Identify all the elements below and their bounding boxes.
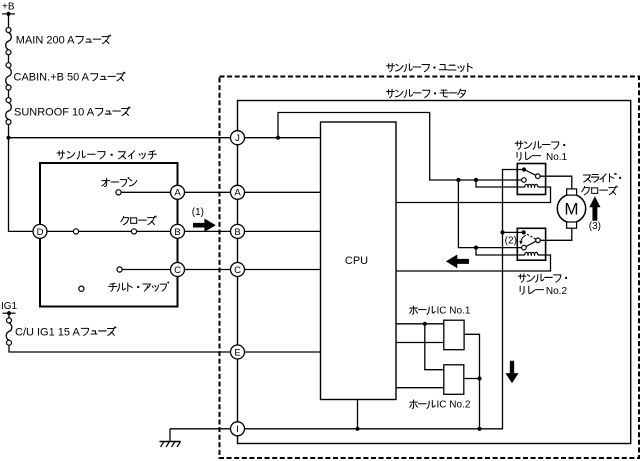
hall IC No.1 box bbox=[444, 320, 464, 350]
wire I to ground bbox=[170, 428, 231, 430]
wire CPU to relay2 coil return bbox=[396, 255, 551, 271]
pin I connector circle (unit) bbox=[231, 422, 245, 436]
wire open contact to pin A bbox=[121, 191, 170, 193]
wire D to first contact bbox=[47, 230, 73, 232]
switch contact circle on C line bbox=[117, 267, 122, 272]
fuse CABIN.+B 50A symbol bbox=[6, 63, 12, 90]
junction CPU bottom on ground bus bbox=[355, 427, 359, 431]
svg-text:IG1: IG1 bbox=[1, 301, 18, 312]
pin A connector circle (unit) bbox=[231, 185, 245, 199]
svg-text:(3): (3) bbox=[589, 221, 601, 232]
svg-text:B: B bbox=[234, 227, 240, 238]
svg-text:IC No.2: IC No.2 bbox=[437, 400, 471, 411]
pin J connector circle bbox=[231, 131, 245, 145]
relay U2 NO contact circle bbox=[536, 238, 541, 243]
wire ground riser bbox=[169, 429, 171, 442]
pin D connector circle bbox=[33, 224, 47, 238]
wire E to CPU bbox=[245, 351, 321, 353]
label hall IC No.1 bbox=[410, 305, 471, 316]
wire junction down and right to switch D bbox=[9, 138, 34, 232]
wire contact1 to contact2 bbox=[79, 230, 132, 232]
fuse SUNROOF 10A symbol bbox=[6, 98, 12, 125]
junction on J wire bbox=[276, 136, 280, 140]
pin C connector circle (unit) bbox=[231, 263, 245, 277]
wire CPU to relay1 coil return bbox=[396, 187, 551, 203]
wire switch B to unit B bbox=[185, 230, 231, 232]
arrow (1) pointing right bbox=[193, 219, 216, 232]
wire +B down to fuse F1 bbox=[8, 14, 10, 28]
box sunroof motor bbox=[238, 101, 631, 444]
arrow down (hall signals) bbox=[505, 361, 518, 384]
switch box sunroof switch bbox=[40, 163, 178, 307]
junction hall feed split bbox=[423, 322, 427, 326]
label open (katakana opun) bbox=[102, 178, 110, 186]
terminal tick at +B bbox=[2, 13, 15, 15]
wire ground bus I to relays bbox=[245, 170, 522, 429]
pin C connector circle (switch) bbox=[171, 263, 185, 277]
wire tilt contact to pin C bbox=[122, 269, 170, 271]
switch contact lone circle bbox=[79, 286, 84, 291]
junction feed split to relay2 bbox=[456, 178, 460, 182]
svg-text:J: J bbox=[235, 133, 240, 144]
pin B connector circle (switch) bbox=[171, 224, 185, 238]
wire relay1 to motor top bbox=[540, 176, 572, 189]
svg-text:CPU: CPU bbox=[345, 255, 368, 267]
wire IG1 fuse to connector E bbox=[9, 345, 231, 352]
relay U1 NO contact circle bbox=[536, 174, 541, 179]
switch contact circle 1 on B line bbox=[73, 229, 78, 234]
label close (katakana kurozu) motor bbox=[582, 186, 590, 194]
ground hatch 2 bbox=[166, 442, 170, 448]
svg-text:MAIN 200 A: MAIN 200 A bbox=[16, 35, 75, 47]
relay U1 coil bbox=[525, 184, 538, 188]
box CPU bbox=[321, 122, 397, 400]
arrow (2) head bbox=[519, 241, 523, 245]
svg-text:No.1: No.1 bbox=[546, 152, 568, 163]
motor M1 circle bbox=[557, 194, 585, 222]
junction hall2 output bbox=[477, 376, 481, 380]
ground hatch 3 bbox=[172, 442, 176, 448]
wire to relay2 common bbox=[503, 231, 522, 233]
svg-text:SUNROOF 10 A: SUNROOF 10 A bbox=[14, 106, 95, 118]
switch contact circle 2 on B line bbox=[131, 229, 136, 234]
svg-text:+B: +B bbox=[2, 2, 15, 13]
fuse C/U IG1 15A symbol bbox=[6, 318, 12, 345]
hall IC No.2 box bbox=[444, 365, 464, 395]
terminal tick at IG1 bbox=[3, 312, 16, 314]
wire hall2 output bbox=[464, 378, 480, 380]
wire drop to relay1 coil bbox=[476, 180, 525, 187]
wire contact2 to pin B bbox=[137, 230, 171, 232]
svg-text:(2): (2) bbox=[505, 236, 517, 247]
wire hall feed down to hall2 bbox=[425, 324, 444, 370]
wire CPU to hall1 pin2 bbox=[396, 342, 444, 344]
wire CPU to hall2 pin2 bbox=[396, 387, 444, 389]
switch contact open circle on A line bbox=[116, 190, 121, 195]
label C/U fuse katakana fuyuzu bbox=[81, 328, 88, 335]
junction hall return on ground bus bbox=[477, 427, 481, 431]
junction feed to relay1 coil bbox=[474, 178, 478, 182]
label sunroof relay No.1 line1 (katakana) bbox=[515, 141, 523, 149]
wire F1 to F2 bbox=[8, 55, 10, 63]
pin B connector circle (unit) bbox=[231, 224, 245, 238]
ground hatch 4 bbox=[177, 442, 181, 448]
wire drop to relay2 coil bbox=[476, 248, 525, 255]
wire hall1 output bbox=[464, 334, 479, 429]
label relay No.1 line2 bbox=[517, 152, 567, 163]
svg-text:IC No.1: IC No.1 bbox=[437, 305, 471, 316]
junction feed to relay2 coil bbox=[474, 246, 478, 250]
pin E connector circle (unit) bbox=[231, 345, 245, 359]
svg-text:D: D bbox=[37, 227, 44, 238]
label sunroof motor (katakana) bbox=[386, 89, 394, 97]
svg-text:I: I bbox=[236, 424, 239, 435]
junction relay2 common branch bbox=[500, 230, 504, 234]
label relay No.2 line2 bbox=[520, 286, 567, 297]
wire C to CPU bbox=[245, 269, 321, 271]
arrow (2) contact movement arc bbox=[521, 235, 526, 241]
pin A connector circle (switch) bbox=[171, 185, 185, 199]
wire IG1 down to fuse bbox=[8, 313, 10, 318]
label close (katakana kurozu) bbox=[121, 216, 129, 224]
relay U1 box bbox=[517, 164, 545, 195]
wire relay2 to motor bottom bbox=[540, 228, 572, 240]
relay U2 contact arm engaged bbox=[526, 241, 536, 246]
wire +B feed up over to relays bbox=[278, 113, 521, 181]
svg-text:M: M bbox=[564, 200, 578, 219]
svg-text:A: A bbox=[234, 188, 241, 199]
label SUNROOF fuse katakana fuyuzu bbox=[96, 108, 103, 115]
label sunroof unit (katakana) bbox=[387, 63, 395, 71]
svg-text:No.2: No.2 bbox=[546, 286, 568, 297]
ground symbol bar bbox=[160, 441, 181, 443]
label hall IC No.2 bbox=[410, 400, 471, 411]
dashed box sunroof unit bbox=[220, 77, 640, 459]
label sunroof relay No.2 line1 (katakana) bbox=[518, 274, 526, 282]
svg-text:C: C bbox=[234, 265, 241, 276]
relay U1 contact arm bbox=[524, 170, 536, 176]
relay U2 contact arm released (dashed) bbox=[524, 232, 536, 239]
junction +B terminal dot bbox=[6, 12, 10, 16]
fuse MAIN 200A symbol bbox=[6, 28, 12, 55]
label CABIN fuse katakana fuyuzu bbox=[91, 74, 98, 81]
relay U1 NC contact circle bbox=[522, 178, 527, 183]
junction fuse output node bbox=[6, 136, 10, 140]
relay U1 common contact dot bbox=[522, 167, 526, 171]
relay U2 box bbox=[517, 228, 545, 260]
wire F2 to F3 bbox=[8, 90, 10, 98]
label MAIN fuse katakana fuyuzu bbox=[76, 37, 83, 44]
relay U2 lower contact circle bbox=[522, 245, 527, 250]
wire F3 down to junction bbox=[8, 125, 10, 138]
svg-text:E: E bbox=[234, 347, 240, 358]
svg-text:B: B bbox=[174, 227, 180, 238]
motor terminal top bbox=[567, 189, 577, 195]
svg-text:A: A bbox=[174, 188, 181, 199]
junction IG1 terminal dot bbox=[7, 311, 11, 315]
relay U2 coil bbox=[525, 252, 538, 256]
wire switch C to unit C bbox=[185, 269, 231, 271]
wire B to CPU bbox=[245, 230, 321, 232]
wire A to CPU bbox=[245, 191, 321, 193]
label sunroof switch (katakana) bbox=[57, 151, 65, 159]
wire junction to connector J bbox=[9, 137, 231, 139]
wire CPU to hall1 pin1 bbox=[396, 323, 444, 325]
label slide (katakana suraido) bbox=[583, 175, 590, 182]
relay U2 common contact dot bbox=[522, 230, 526, 234]
arrow (3) pointing up bbox=[589, 196, 600, 220]
arrow left (CPU relay drive) bbox=[446, 255, 469, 269]
wire CPU bottom to ground bus bbox=[357, 400, 359, 429]
svg-text:CABIN.+B 50 A: CABIN.+B 50 A bbox=[14, 72, 90, 84]
label tilt-up (katakana chiruto appu) bbox=[109, 283, 117, 291]
svg-text:(1): (1) bbox=[192, 207, 204, 218]
wire feed down to relay2 bbox=[458, 180, 521, 248]
wire switch A to unit A bbox=[185, 191, 231, 193]
svg-text:C/U IG1 15 A: C/U IG1 15 A bbox=[15, 326, 80, 338]
motor terminal bottom bbox=[567, 222, 577, 228]
wire J to CPU bbox=[245, 137, 321, 139]
svg-text:C: C bbox=[174, 265, 181, 276]
ground hatch 1 bbox=[161, 442, 165, 448]
